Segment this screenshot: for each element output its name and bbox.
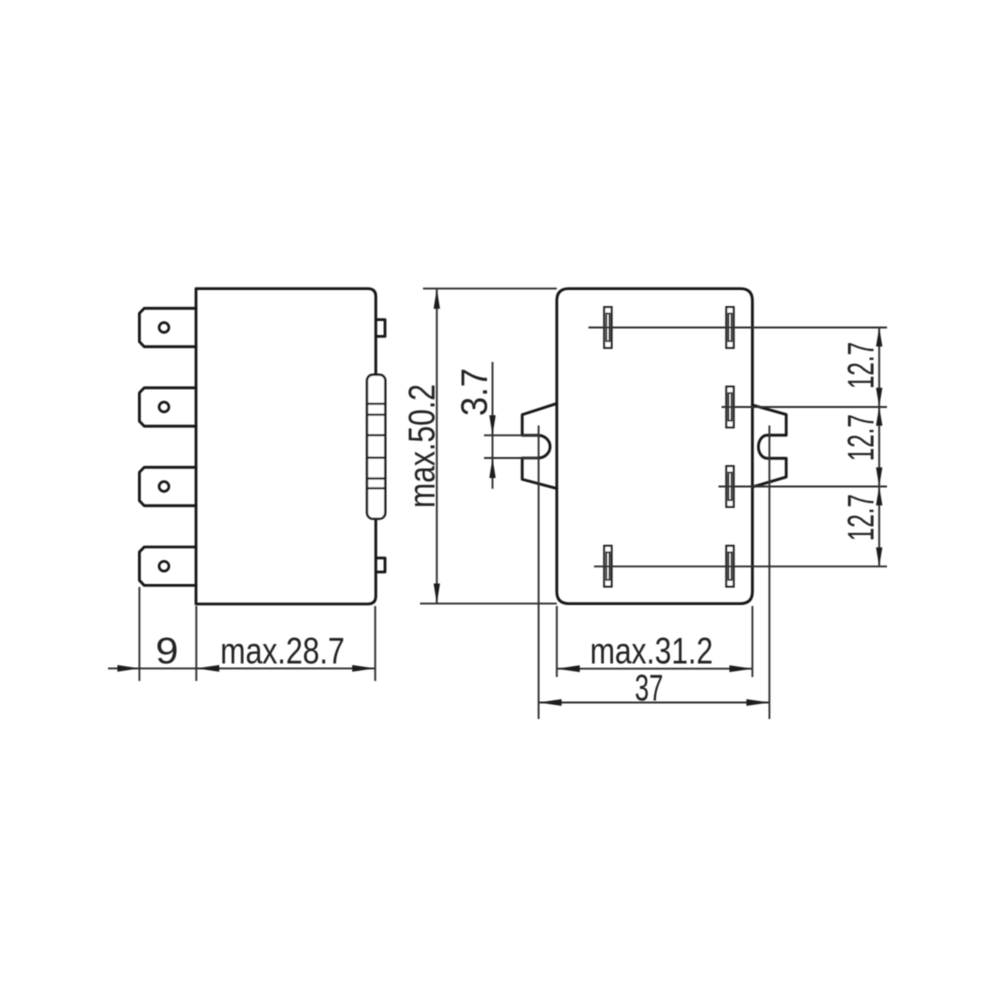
left mounting flange with notch xyxy=(522,404,557,489)
svg-text:max.31.2: max.31.2 xyxy=(590,631,713,672)
svg-text:max.28.7: max.28.7 xyxy=(220,631,345,672)
dim line 9 and max.28.7 xyxy=(108,667,376,669)
row line 3 xyxy=(719,486,888,488)
slot right col row 3 xyxy=(726,466,733,507)
ext line 31.2 left xyxy=(556,606,558,677)
terminal tab 2 xyxy=(139,388,196,426)
dim line max.50.2 xyxy=(436,289,438,603)
slot left col row 1 xyxy=(604,307,611,348)
slot right col row 4 xyxy=(726,546,733,587)
ext line body left bottom xyxy=(195,606,197,681)
ext line 3.7 bottom xyxy=(484,457,539,459)
slot right col row 2 xyxy=(726,387,733,428)
ladder line 2 xyxy=(367,414,385,416)
ext line 37 right xyxy=(768,426,770,720)
slot inner right col row 1 xyxy=(728,314,731,342)
arrow 50.2 top xyxy=(434,289,440,309)
svg-text:12.7: 12.7 xyxy=(841,414,882,461)
arrow 50.2 bottom xyxy=(434,584,440,604)
arrow 3.7 up xyxy=(489,458,495,478)
dim line 37 xyxy=(539,702,770,704)
arrow 12.7 r1 up xyxy=(876,328,882,347)
terminal tab 4 xyxy=(139,547,196,585)
slot left col row 4 xyxy=(604,546,611,587)
ladder line 1 xyxy=(367,403,385,405)
arrowheads xyxy=(117,289,882,706)
row line 2 xyxy=(722,406,888,408)
arrow 12.7 r4 down xyxy=(876,547,882,566)
ext line 31.2 right xyxy=(751,606,753,677)
dim line max.31.2 xyxy=(557,668,753,670)
row line 4 xyxy=(594,565,887,567)
projection line top between views xyxy=(423,288,557,290)
svg-text:12.7: 12.7 xyxy=(841,342,882,389)
terminal hole 1 xyxy=(159,323,169,333)
dim line 12.7 column xyxy=(878,328,880,567)
side bump bottom xyxy=(376,558,385,572)
svg-text:37: 37 xyxy=(635,668,664,709)
ladder line 5 xyxy=(367,477,385,479)
ext line 37 left xyxy=(538,426,540,720)
terminal tab 3 xyxy=(139,467,196,505)
terminal tab 1 xyxy=(139,308,196,346)
ladder line 6 xyxy=(367,487,385,489)
pin slots: outer rect white filled, inner rect xyxy=(604,307,734,586)
dimension and extension lines (thin) xyxy=(108,289,887,719)
arrow 31.2 left xyxy=(557,665,580,672)
ext line left of 9 xyxy=(138,587,140,681)
ladder line 3 xyxy=(367,434,385,436)
arrow 31.2 right xyxy=(729,665,752,672)
projection line bottom between views xyxy=(420,603,557,605)
slot inner left col row 4 xyxy=(606,552,609,580)
arrow 12.7 r2 up xyxy=(876,407,882,426)
arrow 9 left (outside) xyxy=(117,665,139,672)
ext line 3.7 top xyxy=(484,434,539,436)
arrow 12.7 r3 down xyxy=(876,467,882,486)
arrow 12.7 r2 down xyxy=(876,388,882,407)
terminal hole 4 xyxy=(159,561,169,571)
svg-text:3.7: 3.7 xyxy=(454,368,495,416)
left view relay body xyxy=(196,289,376,604)
terminal hole 3 xyxy=(159,482,169,492)
arrow 12.7 r3 up xyxy=(876,486,882,505)
ext line body right bottom xyxy=(374,606,376,681)
slot inner right col row 4 xyxy=(728,552,731,580)
dimension labels xyxy=(156,342,882,709)
terminal hole 2 xyxy=(159,402,169,412)
slide detail (ladder) on left view right edge xyxy=(367,375,385,519)
arrow 28.7 left xyxy=(196,665,219,672)
ladder line 4 xyxy=(367,457,385,459)
slot inner right col row 2 xyxy=(728,393,731,421)
dim line 3.7 xyxy=(492,362,494,489)
svg-text:max.50.2: max.50.2 xyxy=(402,384,443,508)
slot right col row 1 xyxy=(726,307,733,348)
svg-text:9: 9 xyxy=(156,631,179,672)
arrow 28.7 right xyxy=(352,665,375,672)
arrow 37 left xyxy=(539,699,562,706)
arrow 3.7 down xyxy=(489,415,495,435)
side bump top xyxy=(376,320,385,337)
right mounting flange with notch xyxy=(752,405,786,487)
arrow 37 right xyxy=(746,699,769,706)
slot inner right col row 3 xyxy=(728,473,731,501)
slot inner left col row 1 xyxy=(606,314,609,342)
right view relay body xyxy=(557,289,753,604)
row line 1 xyxy=(588,327,887,329)
svg-text:12.7: 12.7 xyxy=(841,494,882,541)
